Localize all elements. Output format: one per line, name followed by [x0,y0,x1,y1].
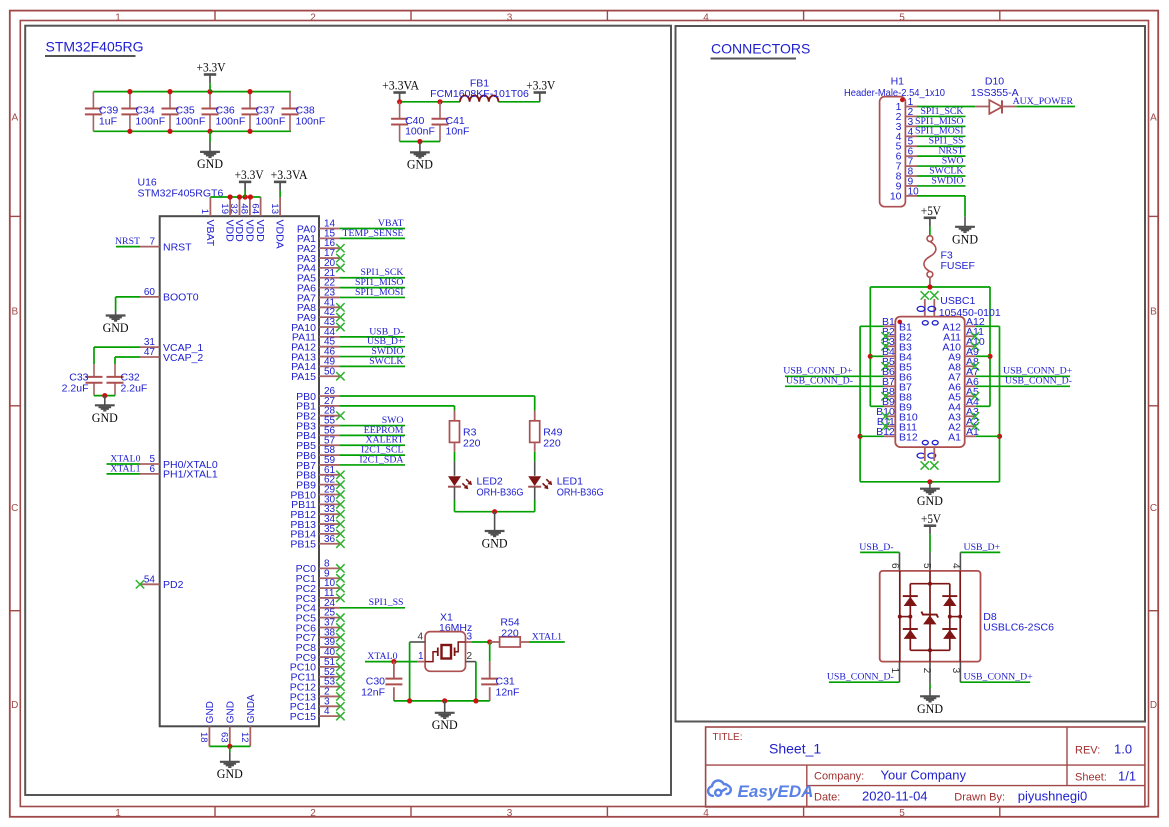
svg-text:XTAL1: XTAL1 [532,631,562,642]
svg-text:GND: GND [197,156,223,171]
svg-text:18: 18 [198,732,209,743]
svg-text:100nF: 100nF [135,115,165,127]
svg-text:3: 3 [507,12,513,23]
svg-text:AUX_POWER: AUX_POWER [1013,96,1074,107]
svg-text:2: 2 [921,668,932,674]
svg-text:PD2: PD2 [163,579,184,591]
svg-text:4: 4 [417,632,423,643]
svg-text:VDDA: VDDA [274,220,286,249]
svg-text:GND: GND [917,493,943,508]
svg-text:Company:: Company: [814,771,864,783]
svg-text:REV:: REV: [1075,745,1100,757]
svg-text:ORH-B36G: ORH-B36G [557,487,604,499]
svg-text:A1: A1 [966,426,979,438]
svg-text:GND: GND [226,701,237,723]
svg-text:GND: GND [92,410,118,425]
svg-text:piyushnegi0: piyushnegi0 [1018,788,1087,803]
svg-text:4: 4 [703,808,709,819]
svg-text:47: 47 [144,347,156,358]
svg-text:+3.3V: +3.3V [235,168,265,182]
svg-text:Date:: Date: [814,791,840,803]
svg-text:STM32F405RG: STM32F405RG [46,39,144,55]
svg-text:XTAL1: XTAL1 [110,463,140,474]
svg-text:100nF: 100nF [216,115,246,127]
svg-text:CONNECTORS: CONNECTORS [711,41,810,57]
svg-text:C: C [1150,503,1157,514]
svg-text:2020-11-04: 2020-11-04 [862,788,928,803]
svg-text:100nF: 100nF [405,126,435,138]
svg-text:220: 220 [463,438,481,450]
svg-text:3: 3 [507,808,513,819]
svg-text:A: A [11,113,18,124]
svg-text:USBLC6-2SC6: USBLC6-2SC6 [983,622,1054,634]
svg-text:PB15: PB15 [290,539,316,551]
svg-text:+3.3VA: +3.3VA [382,79,420,93]
svg-text:VCAP_2: VCAP_2 [163,352,203,364]
svg-text:4: 4 [950,563,961,569]
svg-text:GND: GND [952,231,978,246]
svg-text:1: 1 [115,12,121,23]
svg-text:PC15: PC15 [290,711,316,723]
svg-text:60: 60 [144,287,156,298]
svg-text:13: 13 [269,203,280,214]
svg-text:4: 4 [703,12,709,23]
svg-text:TEMP_SENSE: TEMP_SENSE [343,228,404,239]
svg-text:Your Company: Your Company [881,768,967,783]
svg-text:2: 2 [310,808,316,819]
svg-text:SWDIO: SWDIO [931,175,963,186]
svg-text:54: 54 [144,574,156,585]
svg-text:D: D [1150,700,1157,711]
svg-text:1.0: 1.0 [1114,742,1132,757]
svg-text:100nF: 100nF [296,115,326,127]
svg-text:GND: GND [205,701,216,723]
svg-text:2: 2 [310,12,316,23]
svg-text:6: 6 [149,464,155,475]
svg-text:64: 64 [249,203,260,214]
svg-text:EasyEDA: EasyEDA [738,783,814,801]
svg-text:GND: GND [482,536,508,551]
svg-text:FUSEF: FUSEF [941,260,975,272]
svg-text:Drawn By:: Drawn By: [954,791,1005,803]
svg-text:VDD: VDD [254,220,266,243]
svg-text:USBC1: USBC1 [940,295,975,307]
svg-text:+5V: +5V [921,204,942,218]
svg-text:63: 63 [219,732,230,743]
svg-text:USB_CONN_D-: USB_CONN_D- [786,376,853,387]
svg-text:ORH-B36G: ORH-B36G [477,487,524,499]
svg-text:7: 7 [149,237,155,248]
svg-text:5: 5 [921,563,932,569]
svg-text:GND: GND [217,766,243,781]
svg-text:100nF: 100nF [176,115,206,127]
svg-text:10: 10 [890,190,902,202]
svg-text:1: 1 [115,808,121,819]
svg-text:A1: A1 [948,432,961,444]
svg-text:2.2uF: 2.2uF [121,383,148,395]
svg-text:19: 19 [219,203,230,214]
svg-text:+5V: +5V [921,512,942,526]
svg-text:5: 5 [899,808,905,819]
svg-text:SWCLK: SWCLK [369,356,403,367]
svg-text:10nF: 10nF [446,126,470,138]
svg-text:2.2uF: 2.2uF [62,383,89,395]
svg-text:FCM1608KF-101T06: FCM1608KF-101T06 [430,88,529,100]
svg-text:B12: B12 [899,432,918,444]
svg-text:GND: GND [432,717,458,732]
svg-text:VDD: VDD [233,220,245,243]
svg-text:I2C1_SDA: I2C1_SDA [359,454,403,465]
svg-text:1SS355-A: 1SS355-A [971,87,1019,99]
svg-text:6: 6 [889,563,900,569]
svg-text:+3.3V: +3.3V [526,79,556,93]
svg-text:1uF: 1uF [99,115,117,127]
svg-text:TITLE:: TITLE: [713,732,743,743]
svg-text:B: B [1150,307,1157,318]
svg-text:100nF: 100nF [256,115,286,127]
svg-text:220: 220 [543,438,561,450]
svg-text:48: 48 [239,203,250,214]
svg-text:USB_CONN_D-: USB_CONN_D- [1005,376,1072,387]
svg-text:3: 3 [467,632,473,643]
svg-text:NRST: NRST [163,241,192,253]
svg-text:SPI1_SS: SPI1_SS [369,597,404,608]
svg-text:C: C [11,503,18,514]
svg-text:220: 220 [501,627,519,639]
svg-text:12nF: 12nF [496,687,520,699]
svg-text:NRST: NRST [115,236,140,247]
svg-text:GND: GND [917,701,943,716]
svg-text:H1: H1 [891,76,905,88]
svg-text:1: 1 [418,651,424,662]
svg-text:3: 3 [950,668,961,674]
svg-text:PH1/XTAL1: PH1/XTAL1 [163,469,218,481]
svg-text:5: 5 [899,12,905,23]
svg-text:+3.3VA: +3.3VA [271,168,309,182]
svg-text:BOOT0: BOOT0 [163,292,199,304]
svg-text:A: A [1150,113,1157,124]
svg-text:GNDA: GNDA [246,694,257,723]
svg-text:2: 2 [467,651,473,662]
svg-text:Sheet_1: Sheet_1 [769,741,821,757]
svg-text:USB_D+: USB_D+ [964,542,1001,553]
svg-text:D10: D10 [985,76,1004,88]
svg-text:32: 32 [228,203,239,214]
svg-text:36: 36 [324,534,336,545]
svg-text:4: 4 [324,706,330,717]
svg-text:+3.3V: +3.3V [197,61,227,75]
svg-text:GND: GND [407,156,433,171]
svg-text:GND: GND [103,320,129,335]
svg-text:SPI1_MOSI: SPI1_MOSI [355,287,403,298]
svg-text:PA15: PA15 [291,371,316,383]
svg-text:Sheet:: Sheet: [1075,772,1107,784]
svg-text:VDD: VDD [244,220,256,243]
svg-text:50: 50 [324,366,336,377]
svg-text:12nF: 12nF [361,687,385,699]
svg-text:B12: B12 [876,426,895,438]
svg-text:VBAT: VBAT [204,220,216,247]
svg-text:1: 1 [199,209,210,214]
svg-text:USB_CONN_D+: USB_CONN_D+ [964,672,1034,683]
svg-text:USB_CONN_D-: USB_CONN_D- [827,672,894,683]
svg-text:12: 12 [239,732,250,743]
svg-text:USB_D-: USB_D- [859,542,893,553]
svg-text:1/1: 1/1 [1118,769,1136,784]
svg-text:B: B [11,307,18,318]
svg-text:D: D [11,700,18,711]
